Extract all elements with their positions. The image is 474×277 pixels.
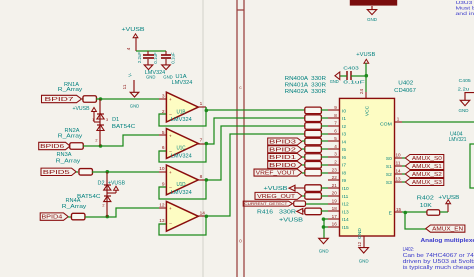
svg-text:+: + (169, 170, 172, 175)
svg-text:13: 13 (395, 176, 401, 181)
svg-text:R_Array: R_Array (58, 87, 83, 93)
svg-text:3: 3 (162, 93, 165, 99)
svg-text:I10: I10 (342, 186, 349, 192)
svg-text:0.1uF: 0.1uF (343, 79, 364, 85)
svg-text:R_Array: R_Array (62, 204, 87, 210)
svg-text:14: 14 (200, 210, 206, 216)
svg-text:I0: I0 (342, 108, 346, 114)
svg-text:BPID2: BPID2 (269, 147, 296, 153)
svg-text:+VUSB: +VUSB (122, 27, 145, 33)
svg-text:+VUSB: +VUSB (73, 106, 91, 112)
svg-text:330R: 330R (279, 210, 296, 216)
svg-text:10: 10 (159, 166, 165, 172)
svg-text:1: 1 (200, 101, 203, 107)
svg-text:LMV324: LMV324 (171, 117, 192, 123)
svg-text:2: 2 (95, 139, 97, 143)
svg-text:CD4067: CD4067 (394, 88, 416, 94)
svg-text:+: + (169, 206, 172, 211)
svg-text:21: 21 (332, 183, 338, 188)
svg-text:12: 12 (357, 241, 362, 247)
svg-text:+VUSB: +VUSB (279, 218, 304, 224)
svg-text:22: 22 (332, 175, 338, 180)
svg-text:RN402A 330R: RN402A 330R (285, 89, 327, 95)
svg-text:C403: C403 (343, 65, 359, 71)
svg-text:2: 2 (102, 204, 104, 208)
svg-text:GND: GND (319, 248, 329, 254)
svg-text:BAT54C: BAT54C (112, 124, 136, 130)
svg-text:1: 1 (397, 117, 400, 122)
svg-text:COM: COM (380, 122, 392, 128)
svg-text:4: 4 (126, 47, 131, 50)
svg-text:I3: I3 (342, 132, 346, 138)
svg-text:I7: I7 (342, 163, 346, 169)
svg-text:AMUX_EN: AMUX_EN (432, 227, 463, 233)
svg-text:I14: I14 (342, 217, 349, 223)
svg-text:+VUSB: +VUSB (438, 195, 459, 201)
svg-text:6: 6 (162, 145, 165, 151)
svg-text:D1: D1 (112, 117, 119, 123)
svg-text:I8: I8 (342, 170, 346, 176)
svg-text:GND: GND (130, 103, 140, 109)
svg-text:I11: I11 (342, 194, 349, 200)
svg-text:LMV321: LMV321 (449, 137, 467, 143)
svg-text:VREG_OUT: VREG_OUT (257, 194, 296, 200)
svg-text:I9: I9 (342, 178, 346, 184)
svg-text:U402: U402 (398, 81, 413, 87)
svg-text:D2: D2 (98, 181, 105, 187)
svg-text:LMV324: LMV324 (145, 70, 166, 76)
svg-text:R402: R402 (417, 195, 434, 201)
svg-text:LMV324: LMV324 (171, 190, 192, 196)
svg-text:24: 24 (359, 89, 364, 95)
svg-text:Must be: Must be (456, 6, 474, 11)
svg-text:R_Array: R_Array (58, 133, 83, 139)
svg-text:U1D: U1D (177, 182, 186, 188)
svg-text:GND: GND (357, 228, 363, 239)
svg-text:and inst: and inst (456, 11, 474, 16)
svg-text:VCC: VCC (364, 105, 370, 116)
svg-text:RN400A 330R: RN400A 330R (285, 76, 327, 82)
svg-text:LMV324: LMV324 (172, 80, 193, 86)
svg-text:R_Array: R_Array (56, 158, 81, 164)
svg-text:BPID0: BPID0 (269, 163, 296, 169)
svg-text:GND: GND (459, 108, 470, 113)
svg-text:0: 0 (239, 239, 242, 245)
svg-text:S3: S3 (386, 180, 392, 186)
svg-text:23: 23 (332, 167, 338, 172)
svg-text:I5: I5 (342, 147, 346, 153)
svg-text:I6: I6 (342, 155, 346, 161)
svg-text:S0: S0 (386, 156, 392, 162)
svg-text:V-: V- (127, 72, 132, 77)
svg-text:0.1uF: 0.1uF (171, 52, 176, 64)
svg-text:GND: GND (367, 17, 377, 23)
svg-text:BPID6: BPID6 (40, 144, 64, 150)
svg-text:5: 5 (334, 136, 337, 141)
svg-text:10: 10 (395, 152, 401, 157)
svg-text:+: + (169, 97, 172, 102)
svg-text:BPID7: BPID7 (45, 97, 74, 103)
svg-text:VREF_VOUT: VREF_VOUT (256, 171, 297, 177)
svg-text:S1: S1 (386, 164, 392, 170)
svg-text:6: 6 (334, 128, 337, 133)
svg-text:AMUX_S3: AMUX_S3 (412, 180, 442, 186)
svg-text:LMV324: LMV324 (171, 154, 192, 160)
svg-text:RN401A 330R: RN401A 330R (285, 83, 327, 89)
svg-text:U3U3 m: U3U3 m (456, 0, 474, 5)
svg-text:7: 7 (334, 121, 337, 126)
svg-text:4: 4 (334, 144, 337, 149)
svg-text:AMUX_S2: AMUX_S2 (412, 172, 442, 178)
svg-text:19: 19 (332, 198, 338, 203)
svg-text:S2: S2 (386, 172, 392, 178)
svg-text:AMUX_S1: AMUX_S1 (412, 164, 442, 170)
svg-text:10K: 10K (420, 203, 433, 209)
svg-text:–: – (169, 221, 172, 226)
svg-text:I13: I13 (342, 209, 349, 215)
svg-text:11: 11 (396, 160, 401, 165)
svg-text:I1: I1 (342, 116, 346, 122)
svg-text:E: E (389, 210, 392, 216)
svg-text:12: 12 (159, 203, 165, 209)
svg-text:8: 8 (334, 113, 337, 118)
svg-text:14: 14 (395, 168, 401, 173)
svg-text:I12: I12 (342, 202, 349, 208)
svg-text:18: 18 (332, 206, 338, 211)
svg-text:GND: GND (330, 79, 339, 84)
svg-text:17: 17 (332, 214, 338, 219)
svg-text:BPID3: BPID3 (269, 139, 296, 145)
svg-text:+VUSB: +VUSB (108, 180, 126, 186)
svg-text:16: 16 (332, 222, 338, 227)
svg-text:I15: I15 (342, 225, 349, 231)
svg-text:3: 3 (334, 152, 337, 157)
svg-text:CURRENT_DETECT: CURRENT_DETECT (244, 202, 287, 206)
svg-text:U1B: U1B (177, 109, 186, 115)
svg-text:13: 13 (159, 218, 165, 224)
svg-text:11: 11 (122, 84, 127, 89)
svg-text:BAT54C: BAT54C (77, 194, 101, 200)
svg-text:0.1uF: 0.1uF (153, 52, 158, 64)
svg-text:R416: R416 (257, 210, 273, 216)
svg-text:2: 2 (334, 159, 337, 164)
svg-text:BPID5: BPID5 (43, 170, 70, 176)
svg-text:Analog multiplexer: Analog multiplexer (421, 238, 474, 244)
svg-text:15: 15 (396, 207, 402, 212)
svg-text:2.2u: 2.2u (458, 86, 470, 92)
svg-text:I2: I2 (342, 124, 346, 130)
svg-text:C405: C405 (459, 78, 471, 84)
svg-text:GND: GND (359, 259, 369, 265)
svg-text:I4: I4 (342, 139, 346, 145)
svg-text:+VUSB: +VUSB (264, 186, 289, 192)
svg-text:3: 3 (106, 118, 108, 122)
svg-text:BPID1: BPID1 (269, 155, 296, 161)
svg-text:is typically much cheape: is typically much cheape (403, 265, 474, 271)
svg-text:BPID4: BPID4 (41, 215, 62, 221)
svg-text:+VUSB: +VUSB (356, 52, 375, 58)
svg-text:AMUX_S0: AMUX_S0 (412, 156, 442, 162)
svg-text:9: 9 (334, 105, 337, 110)
svg-text:1: 1 (92, 118, 94, 122)
svg-text:2.2uF: 2.2uF (137, 52, 142, 64)
svg-text:20: 20 (332, 191, 338, 196)
svg-text:U1C: U1C (177, 146, 186, 152)
svg-text:RN3A: RN3A (57, 152, 73, 158)
svg-text:8: 8 (200, 174, 203, 180)
svg-text:5: 5 (162, 130, 165, 136)
svg-text:+: + (169, 133, 172, 138)
svg-text:7: 7 (200, 138, 203, 144)
